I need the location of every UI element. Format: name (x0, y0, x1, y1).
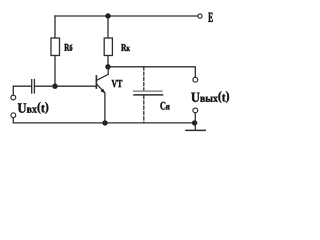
transistor VT base bar (95, 76, 97, 88)
capacitor coupling left plate (31, 80, 33, 93)
label Rб (64, 44, 72, 51)
terminal output lower circle (193, 108, 198, 113)
resistor Rк (104, 38, 112, 56)
capacitor Cн top plate (134, 90, 162, 92)
label Uвых(t) (191, 91, 229, 103)
resistor Rб (51, 38, 60, 56)
wire input lower to bottom rail (12, 118, 14, 123)
label Uвх(t) (18, 102, 49, 114)
wire capacitor to transistor base (35, 85, 96, 87)
wire top of Rк (107, 16, 109, 38)
wire dashed Cн to bottom rail (143, 96, 145, 123)
transistor VT emitter arrow (100, 89, 105, 94)
transistor VT collector lead (97, 67, 108, 81)
wire Rб bottom to base node (54, 56, 56, 87)
terminal E circle (198, 14, 202, 18)
transistor VT emitter lead (97, 84, 105, 123)
capacitor Cн bottom plate (134, 94, 163, 96)
wire top supply rail (55, 15, 198, 17)
wire dashed collector to Cн (143, 67, 145, 91)
node junction collector (105, 64, 110, 69)
node junction base (52, 84, 57, 89)
wire left corner down to Rб (54, 16, 56, 38)
label Rк (121, 44, 130, 51)
node junction top of Rк (105, 13, 110, 18)
node junction emitter on rail (102, 120, 107, 125)
wire output lower to ground (194, 113, 196, 131)
wire Rк bottom to collector node (107, 56, 109, 67)
terminal output upper circle (193, 77, 198, 82)
node junction output on rail (192, 120, 197, 125)
label VT (112, 80, 123, 87)
terminal input upper circle (11, 95, 16, 100)
ground bar (186, 129, 205, 131)
label E (208, 13, 212, 22)
label Cн (160, 102, 169, 110)
capacitor coupling right plate (33, 80, 35, 93)
wire input up and right to capacitor (13, 86, 31, 95)
wire collector to output (108, 67, 195, 78)
terminal input lower circle (11, 113, 16, 118)
wire bottom rail (13, 122, 194, 124)
